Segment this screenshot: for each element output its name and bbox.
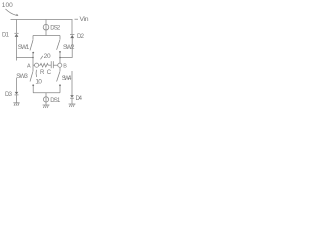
- svg-text:SW3: SW3: [16, 73, 28, 80]
- svg-text:Vin: Vin: [80, 16, 89, 23]
- svg-text:DS1: DS1: [50, 98, 61, 104]
- svg-text:D3: D3: [5, 92, 13, 98]
- svg-text:A: A: [27, 63, 31, 69]
- svg-text:C: C: [47, 70, 52, 76]
- svg-text:SW4: SW4: [62, 75, 72, 82]
- svg-text:R: R: [40, 70, 45, 76]
- svg-text:D2: D2: [77, 34, 85, 40]
- svg-text:D1: D1: [2, 33, 10, 39]
- svg-text:SW1: SW1: [18, 44, 30, 51]
- svg-text:10: 10: [35, 78, 42, 85]
- svg-text:20: 20: [44, 53, 51, 60]
- svg-text:D4: D4: [76, 96, 83, 102]
- svg-text:B: B: [63, 63, 67, 69]
- svg-text:100: 100: [2, 2, 13, 9]
- svg-text:SW2: SW2: [63, 44, 75, 51]
- svg-text:DS2: DS2: [50, 26, 61, 32]
